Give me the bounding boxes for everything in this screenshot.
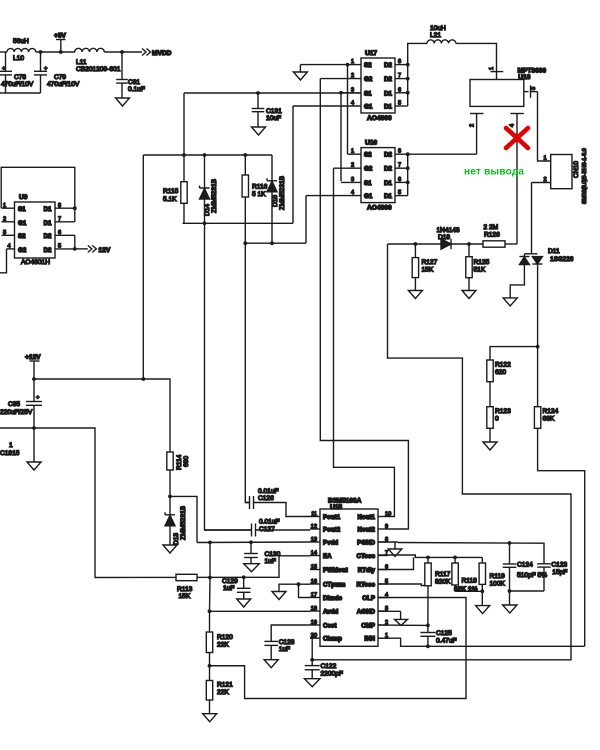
svg-text:51K: 51K [474,267,486,274]
svg-text:470uF/10V: 470uF/10V [1,81,34,88]
wire S2 bus U17-U16 [347,65,349,155]
node C125 bottom [426,644,430,648]
node C79 tap [39,50,43,54]
svg-text:10uH: 10uH [430,25,446,32]
inductor L21 [427,40,456,44]
diode D11 dual [531,253,533,255]
wire U16 G1 down [305,196,307,244]
svg-text:G1: G1 [364,193,373,200]
svg-text:4: 4 [351,190,354,196]
svg-text:17: 17 [311,592,317,598]
wire rail down to +12V rail [142,155,144,379]
svg-text:Avdd: Avdd [323,608,338,615]
svg-text:C127: C127 [259,526,275,533]
svg-text:G1: G1 [18,220,27,227]
svg-text:5: 5 [398,101,401,107]
connector CN10 box [551,155,572,189]
svg-text:19: 19 [311,620,317,626]
svg-text:100K: 100K [490,581,506,588]
svg-text:D15: D15 [272,195,279,207]
node U9 pin5 junction [73,247,77,251]
svg-text:D13: D13 [173,533,180,545]
wire PGND [378,541,398,543]
resistor R113 [176,574,197,580]
svg-text:3: 3 [351,177,354,183]
svg-text:C124: C124 [517,562,533,569]
wire D11 right to R124 node [537,264,539,347]
ground D13 [163,545,177,553]
svg-text:R116: R116 [252,184,268,191]
ground AGND [400,611,402,619]
resistor R127 [414,244,416,258]
svg-text:CN10: CN10 [573,161,580,178]
diode D18 [441,239,451,249]
node R120 R121 junction [208,664,212,668]
wire L21 to U18 pin1 [456,43,497,79]
pin 4 U17 [293,105,361,107]
svg-text:C78: C78 [14,74,26,81]
svg-text:5 1K: 5 1K [252,191,266,198]
svg-text:+12V: +12V [25,354,41,361]
wire U16 drain bus [407,154,409,195]
node C81 tap [120,50,124,54]
svg-text:R125: R125 [474,259,490,266]
wire U17 drains to L21 [408,43,427,64]
wire R118 bottom rail [455,590,482,592]
node R114 bottom junction [168,495,172,499]
resistor R122 [487,360,493,382]
svg-text:Pvdd: Pvdd [323,539,338,546]
resistor R121 [209,666,211,681]
svg-text:U15: U15 [330,504,342,511]
svg-text:12V: 12V [99,247,111,254]
svg-text:22K: 22K [217,642,229,649]
svg-text:D2: D2 [384,152,392,159]
pin 4 U16 [306,195,361,197]
svg-text:4: 4 [351,101,354,107]
wire input stub left of L10 [0,51,7,53]
svg-text:8: 8 [398,59,401,65]
node U17 d6 [406,91,410,95]
wire R124 bottom to INN riser [538,428,585,646]
svg-text:Cest: Cest [323,622,336,629]
diode D15 zener [271,155,273,181]
pin 3 U9 [2,234,15,236]
svg-text:12: 12 [311,524,317,530]
wire PGND rail to caps [398,543,544,564]
svg-text:8: 8 [58,203,61,209]
svg-text:CMP: CMP [361,622,375,629]
svg-text:470uF/10V: 470uF/10V [47,81,80,88]
svg-text:5: 5 [58,244,61,250]
svg-text:1: 1 [489,67,495,70]
svg-text:S1: S1 [364,180,372,187]
svg-text:C128: C128 [279,639,295,646]
svg-text:D1: D1 [384,90,392,97]
node U9 pin8 junction [73,206,77,210]
svg-text:6: 6 [398,87,401,93]
wire L11 to MVDD [104,51,142,53]
wire U9 G2 down-left [0,249,7,273]
ground U17 source [300,64,347,66]
node CMP C125 junction [426,624,430,628]
power-module U18 box [470,80,524,107]
svg-text:3: 3 [3,230,6,236]
svg-text:R117: R117 [435,571,451,578]
ground C130 [244,564,260,572]
svg-text:18: 18 [311,606,317,612]
svg-text:R113: R113 [177,586,193,593]
wire to 12V arrow [75,248,88,250]
diode D13 zener [169,496,171,514]
svg-text:D1: D1 [44,220,52,227]
svg-text:S2: S2 [364,62,372,69]
svg-text:11: 11 [311,511,317,517]
pin 1 U9 [2,207,15,209]
svg-text:CB201209-601: CB201209-601 [76,66,121,73]
svg-text:2: 2 [470,124,476,127]
svg-text:G2: G2 [18,247,27,254]
capacitor C122 [305,665,320,667]
svg-text:1SS226: 1SS226 [550,256,574,263]
node U17 pin1 junction [346,63,350,67]
svg-text:220uF/25V: 220uF/25V [0,409,33,416]
svg-text:D2: D2 [44,247,52,254]
svg-text:56uH: 56uH [13,38,29,45]
svg-text:10: 10 [385,511,391,517]
svg-text:Pout1: Pout1 [323,514,341,521]
ground R127 [408,291,422,299]
svg-text:68K: 68K [543,416,555,423]
svg-text:DImdc: DImdc [323,595,342,602]
svg-text:AO4606: AO4606 [367,115,392,122]
svg-text:U18: U18 [518,74,530,81]
svg-text:C130: C130 [265,551,281,558]
svg-text:2: 2 [3,217,6,223]
svg-text:AGND: AGND [357,608,376,615]
wire U17 drain bus [407,65,409,106]
node R116 top [243,153,247,157]
svg-text:R115: R115 [163,188,179,195]
wire R126 to U18 pin4 line [505,243,517,245]
node D14 top [203,153,207,157]
svg-text:C79: C79 [54,74,66,81]
pin 6 U17 [395,92,408,94]
svg-text:620: 620 [495,369,506,376]
node C131 top [256,91,260,95]
pin 4 U18 tick [510,113,523,115]
svg-text:U16: U16 [365,140,377,147]
node +12V rail left [32,377,36,381]
svg-text:1: 1 [351,149,354,155]
resistor R120 [209,611,211,632]
wire corner down to rail [183,93,185,155]
wire D18 cathode to R126 [451,243,483,245]
svg-text:1N4148: 1N4148 [437,227,460,234]
pin 1 U17 [348,64,362,66]
pin 1 U18 tick [491,71,504,73]
svg-text:7: 7 [398,73,401,79]
svg-text:7: 7 [58,217,61,223]
svg-text:C125: C125 [436,630,452,637]
pin 3 U17 [341,92,361,94]
svg-text:G2: G2 [364,76,373,83]
wire C124 C123 bottom rail [510,590,545,592]
svg-text:AO4606: AO4606 [367,205,392,212]
wire C124 to ground [509,591,511,605]
capacitor C79 [40,52,42,71]
svg-text:3: 3 [351,87,354,93]
resistor R119 [481,557,483,563]
node R117 top [426,556,430,560]
wire Pvdd to R120 chain [209,542,211,577]
svg-text:RTdly: RTdly [358,567,376,574]
svg-text:D1: D1 [384,193,392,200]
svg-text:10uF: 10uF [266,115,281,122]
wire junction to R122 [490,347,538,360]
mosfet-pair U16 [361,148,395,203]
wire CTosc net [378,555,482,557]
resistor R114 [169,449,171,452]
wire Avdd [210,610,311,612]
capacitor C124 [509,543,511,564]
svg-text:C122: C122 [321,663,337,670]
ground R119 [476,606,490,614]
wire U9 D2 join [74,235,76,249]
wire U9 drain loop to S1 [1,167,75,222]
svg-text:Nout2: Nout2 [357,526,375,533]
svg-text:1uF: 1uF [279,646,290,653]
svg-text:G2: G2 [364,166,373,173]
svg-text:D11: D11 [548,248,560,255]
svg-text:15pF: 15pF [552,569,567,576]
svg-text:S1: S1 [18,206,26,213]
pin 5 U16 [395,195,408,197]
wire Pvdd line [197,541,310,544]
svg-text:2: 2 [544,177,547,183]
wire DImdc riser [299,584,311,597]
node R125 top [467,242,471,246]
pins 11-20 U15 [310,516,320,518]
resistor R116 [244,155,246,175]
node U17 pin3 junction [339,91,343,95]
node D11 R122 R124 junction [536,345,540,349]
wire emitter rail [0,428,95,578]
svg-text:INN: INN [364,636,375,643]
svg-text:D1: D1 [44,206,52,213]
wire U17 G2 down [320,79,408,529]
svg-text:Nout1: Nout1 [357,514,375,521]
svg-text:15: 15 [311,564,317,570]
svg-text:D2: D2 [384,62,392,69]
svg-text:C123: C123 [551,562,567,569]
wire U18 pin2 to U16 drains [408,153,477,155]
transistor-array U9 box [15,202,56,258]
node Avdd junction [208,609,212,613]
svg-text:15K: 15K [422,267,434,274]
wire R116 rail to C126 [245,243,249,502]
svg-text:C126: C126 [258,495,274,502]
capacitor C131 [257,93,259,109]
wire CN10 pin2 to D11 [531,183,533,254]
svg-text:L11: L11 [76,59,87,66]
svg-text:PWMout: PWMout [323,567,348,574]
wire EA net [95,556,311,578]
node U16 d7 [406,166,410,170]
inductor L10 [7,48,36,52]
svg-text:L10: L10 [13,55,24,62]
pin 2 U16 [334,167,362,169]
pin 5 U17 [395,105,408,107]
svg-text:0.47uF: 0.47uF [436,638,457,645]
capacitor C78 [5,52,7,71]
svg-text:0.01uF: 0.01uF [258,488,279,495]
wire D11 left anode to ground [510,265,524,298]
pin 6 U9 [55,234,75,236]
resistor R117 [427,557,429,563]
pin 8 U17 [395,64,408,66]
svg-text:ZMM5231B: ZMM5231B [211,178,218,213]
svg-text:D2: D2 [384,166,392,173]
svg-text:1uF: 1uF [265,558,276,565]
svg-text:5.1K: 5.1K [163,196,177,203]
wire +12V rail [34,379,170,449]
wire RTosc [378,584,425,586]
svg-text:2: 2 [351,73,354,79]
resistor R115 [183,155,185,182]
capacitor C81 [121,52,123,80]
pin 4 U9 [7,248,15,250]
capacitor C127 series [205,529,252,531]
svg-text:1uF: 1uF [223,585,234,592]
pin 2 U17 [320,78,361,80]
pin 3 U16 [341,181,361,183]
svg-text:SM02(8.0)B-BHS-1-8.0: SM02(8.0)B-BHS-1-8.0 [582,148,588,204]
svg-text:CTosc: CTosc [357,553,376,560]
svg-text:R114: R114 [176,454,183,470]
wire S1 bus U17-U16 [340,93,342,181]
wire Clamp net [310,638,312,665]
net label MVDD [142,49,151,56]
pin 5 U9 [55,248,75,250]
ground R123 [483,442,497,450]
svg-text:+5V: +5V [54,33,67,40]
wire zener bottom rail right [245,242,306,244]
wire zener bottom rail left [183,222,294,224]
node C130 top [249,540,253,544]
svg-text:R120: R120 [217,634,233,641]
svg-text:RTosc: RTosc [357,581,376,588]
ground C128 [264,660,278,668]
ground C124 [503,605,518,613]
node C124 top [508,541,512,545]
svg-text:S2: S2 [18,233,26,240]
wire CTpwm net [279,584,310,591]
svg-text:нет вывода: нет вывода [464,167,524,178]
node rail R115 riser [141,377,145,381]
node C129 top [242,575,246,579]
svg-text:U17: U17 [365,50,377,57]
svg-text:R124: R124 [543,408,559,415]
svg-text:7: 7 [398,163,401,169]
node +5V junction [59,50,63,54]
svg-text:4: 4 [8,244,11,250]
node R127 top [414,242,418,246]
svg-text:22K: 22K [217,689,229,696]
wire L10 to +5V node [36,51,75,53]
wire U16 G2 down to Nout2 [334,168,395,516]
pin 7 U17 [395,78,408,80]
ground C129 [237,599,251,607]
node R115 top [182,153,186,157]
node CTpwm DImdc join [297,582,301,586]
svg-text:1: 1 [544,156,547,162]
svg-text:R123: R123 [495,408,511,415]
svg-text:13: 13 [311,537,317,543]
resistor R118 [454,557,456,563]
node R113 right [208,576,212,580]
node U17 d8 [406,63,410,67]
svg-text:1: 1 [351,59,354,65]
node R116 bottom [243,241,247,245]
svg-text:PGND: PGND [357,539,375,546]
pin 7 U9 [55,221,75,223]
pin 7 U16 [395,167,408,169]
svg-text:G1: G1 [364,104,373,111]
svg-text:2: 2 [351,163,354,169]
svg-text:MVDD: MVDD [152,50,172,57]
wire U17 G1 down [292,106,294,223]
resistor R123 [487,407,493,429]
wire INN net [378,638,585,646]
svg-text:L21: L21 [430,32,441,39]
controller U15 box [320,509,378,646]
capacitor C129 [243,577,245,588]
resistor R124 [537,347,539,407]
ground CTpwm [272,592,286,600]
svg-text:AO4801H: AO4801H [21,259,50,266]
wire zener top rail [143,154,272,156]
svg-text:ZMM5231B: ZMM5231B [180,505,187,540]
wire R114 to Pvdd line [170,496,197,542]
wire AGND [378,610,401,612]
svg-text:D18: D18 [438,234,450,241]
resistor R125 [468,244,470,257]
node R119 bottom [480,589,484,593]
svg-text:OLP: OLP [362,595,375,602]
ground R121 [203,714,217,722]
node Clamp C122 junction [310,658,314,662]
defect mark red X [506,128,528,148]
svg-text:C81: C81 [128,79,140,86]
svg-text:EA: EA [323,553,332,560]
pin 2 U9 [2,221,15,223]
wire OLP stub [378,597,388,599]
wire C78 C79 bottom rail [0,92,41,94]
svg-text:2200pF: 2200pF [321,671,343,678]
wire OLP divider loop [210,598,467,699]
wire D14 rail to C127 [205,223,252,530]
svg-text:0.1uF: 0.1uF [128,86,145,93]
pin 2 U18 tick [470,113,484,115]
svg-text:680: 680 [183,456,190,467]
svg-text:R121: R121 [217,682,233,689]
diode D14 zener [204,155,206,188]
ground C122 [304,679,320,687]
svg-text:S2: S2 [364,152,372,159]
svg-text:0: 0 [495,416,499,423]
node C85 emitter rail cross [32,426,36,430]
